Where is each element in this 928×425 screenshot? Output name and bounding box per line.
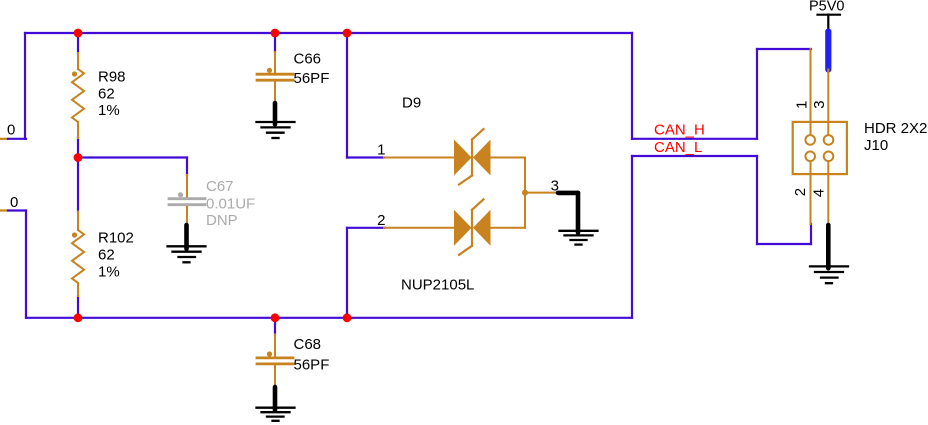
capacitor C67 pin1 dot [178, 192, 183, 197]
svg-text:1: 1 [793, 101, 810, 109]
header J10 pin 3 lead [827, 70, 829, 140]
capacitor C68 pin1 dot [267, 351, 272, 356]
svg-text:0.01UF: 0.01UF [206, 196, 255, 213]
svg-text:C67: C67 [206, 178, 234, 195]
junction dot bottom rail / D9 pin2 [343, 313, 352, 322]
capacitor C66 [257, 52, 293, 102]
junction dot top rail / R98 [74, 29, 83, 38]
resistor R98 pin1 dot [72, 71, 77, 76]
wire: C66 stub [274, 33, 276, 52]
ground at D9 pin 3 (bent) [558, 193, 598, 245]
wire: CAN_L horizontal under label [632, 155, 757, 157]
header J10 pin 1 circle [805, 135, 815, 145]
header J10 pin 2 circle [805, 152, 815, 162]
svg-text:CAN_H: CAN_H [654, 122, 705, 139]
wire: C67 vertical stub [186, 158, 188, 176]
svg-text:4: 4 [811, 189, 828, 197]
svg-text:2: 2 [792, 188, 809, 196]
junction dot mid node R98/R102/C67 [74, 153, 83, 162]
header J10 pin 2 lead [810, 156, 812, 224]
resistor R102 pin1 dot [72, 232, 77, 237]
svg-text:0: 0 [10, 194, 18, 211]
svg-text:R98: R98 [98, 69, 126, 86]
wire: riser to D9 pin 2 [346, 228, 348, 318]
svg-text:CAN_L: CAN_L [654, 139, 702, 156]
wire: middle horizontal R98/R102 to C67 [78, 156, 187, 158]
wire: port stub 0 (CAN_H) [8, 138, 26, 140]
wire: R102 bottom stub [77, 296, 79, 318]
header J10 pin 3 circle [824, 135, 834, 145]
header J10 body [793, 122, 847, 174]
wire: port stub 0 (CAN_L) [8, 209, 26, 211]
wire: CAN_H top to header pin 1 [757, 48, 811, 50]
junction dot bottom rail / C68 [271, 313, 280, 322]
resistor R102 [72, 212, 84, 297]
wire: C68 stub [274, 318, 276, 335]
wire: bottom rail CAN_L [26, 317, 632, 319]
junction dot top rail / D9 pin1 [343, 29, 352, 38]
wire: CAN_L bottom to header pin 2 [757, 243, 811, 245]
header J10 pin 1 lead [810, 49, 812, 140]
D9 TVS element 2 (bottom) [384, 199, 525, 255]
svg-text:62: 62 [98, 86, 115, 103]
wire: port stub 0 (CAN_H) orange tail [0, 138, 8, 140]
junction: D9 pin 3 [522, 190, 528, 196]
resistor R102 labels [98, 230, 134, 281]
wire: CAN_H horizontal under label [632, 138, 757, 140]
resistor R98 [72, 53, 84, 138]
svg-text:P5V0: P5V0 [809, 0, 844, 15]
svg-text:2: 2 [377, 212, 385, 229]
ground at C68 [257, 387, 295, 421]
svg-text:J10: J10 [864, 137, 888, 154]
wire: D9 pin 1 horizontal [347, 156, 384, 158]
header J10 pin 4 lead [827, 156, 829, 223]
power symbol P5V0 [809, 0, 844, 30]
junction dot top rail / C66 [271, 29, 280, 38]
ground at C67 [168, 225, 206, 262]
wire: CAN_L dropper [756, 156, 758, 244]
wire: D9 pin 3 lead [525, 192, 558, 194]
svg-text:C68: C68 [294, 336, 322, 353]
wire: port stub 0 (CAN_L) orange tail [0, 209, 8, 211]
wire: CAN_H right vertical [631, 33, 633, 139]
wire: R98 top stub [77, 33, 79, 53]
capacitor C67 labels [206, 178, 255, 229]
header J10 labels [864, 120, 927, 154]
wire: header pin 2 purple stub [810, 224, 812, 244]
wire: CAN_L right vertical [631, 156, 633, 318]
wire: top rail CAN_H [25, 32, 632, 34]
wire: D9 pin 2 horizontal [347, 227, 384, 229]
svg-text:R102: R102 [98, 230, 134, 247]
wire: R102 top stub [77, 158, 79, 212]
header J10 pin 4 circle [824, 152, 834, 162]
svg-text:DNP: DNP [206, 212, 238, 229]
svg-text:C66: C66 [294, 51, 322, 68]
svg-text:3: 3 [811, 100, 828, 108]
svg-text:1: 1 [377, 142, 385, 159]
capacitor C68 [257, 335, 293, 387]
wire: drop to D9 pin 1 [346, 33, 348, 158]
wire: CAN_H riser [756, 49, 758, 139]
resistor R98 labels [98, 69, 126, 120]
wire: D9 common vertical (orange) [524, 158, 526, 228]
capacitor C66 pin1 dot [267, 68, 272, 73]
svg-text:NUP2105L: NUP2105L [401, 277, 474, 294]
junction dot bottom rail / R102 [74, 313, 83, 322]
svg-text:D9: D9 [402, 95, 421, 112]
svg-text:56PF: 56PF [294, 357, 330, 374]
ground at C66 [257, 103, 295, 138]
svg-text:0: 0 [7, 122, 15, 139]
svg-text:1%: 1% [98, 102, 120, 119]
capacitor C68 labels [294, 336, 330, 374]
wire: left vertical down to bottom rail [25, 211, 27, 318]
capacitor C67 (DNP, gray) [186, 175, 188, 224]
ground at J10 pin 4 [810, 225, 848, 283]
wire: left vertical up to top rail [24, 33, 26, 139]
wire: R98 bottom stub [77, 138, 79, 158]
capacitor C66 labels [294, 51, 330, 88]
svg-text:56PF: 56PF [294, 70, 330, 87]
D9 TVS element 1 (top) [384, 129, 525, 185]
svg-text:62: 62 [98, 247, 115, 264]
svg-text:HDR 2X2: HDR 2X2 [864, 120, 927, 137]
svg-text:1%: 1% [98, 264, 120, 281]
thick blue bus segment (P5V0 feed) [825, 32, 831, 70]
